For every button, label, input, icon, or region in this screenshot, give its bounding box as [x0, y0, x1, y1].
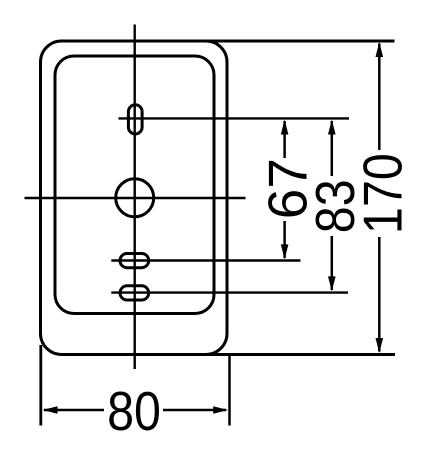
- svg-text:170: 170: [352, 153, 414, 234]
- svg-text:80: 80: [107, 380, 161, 442]
